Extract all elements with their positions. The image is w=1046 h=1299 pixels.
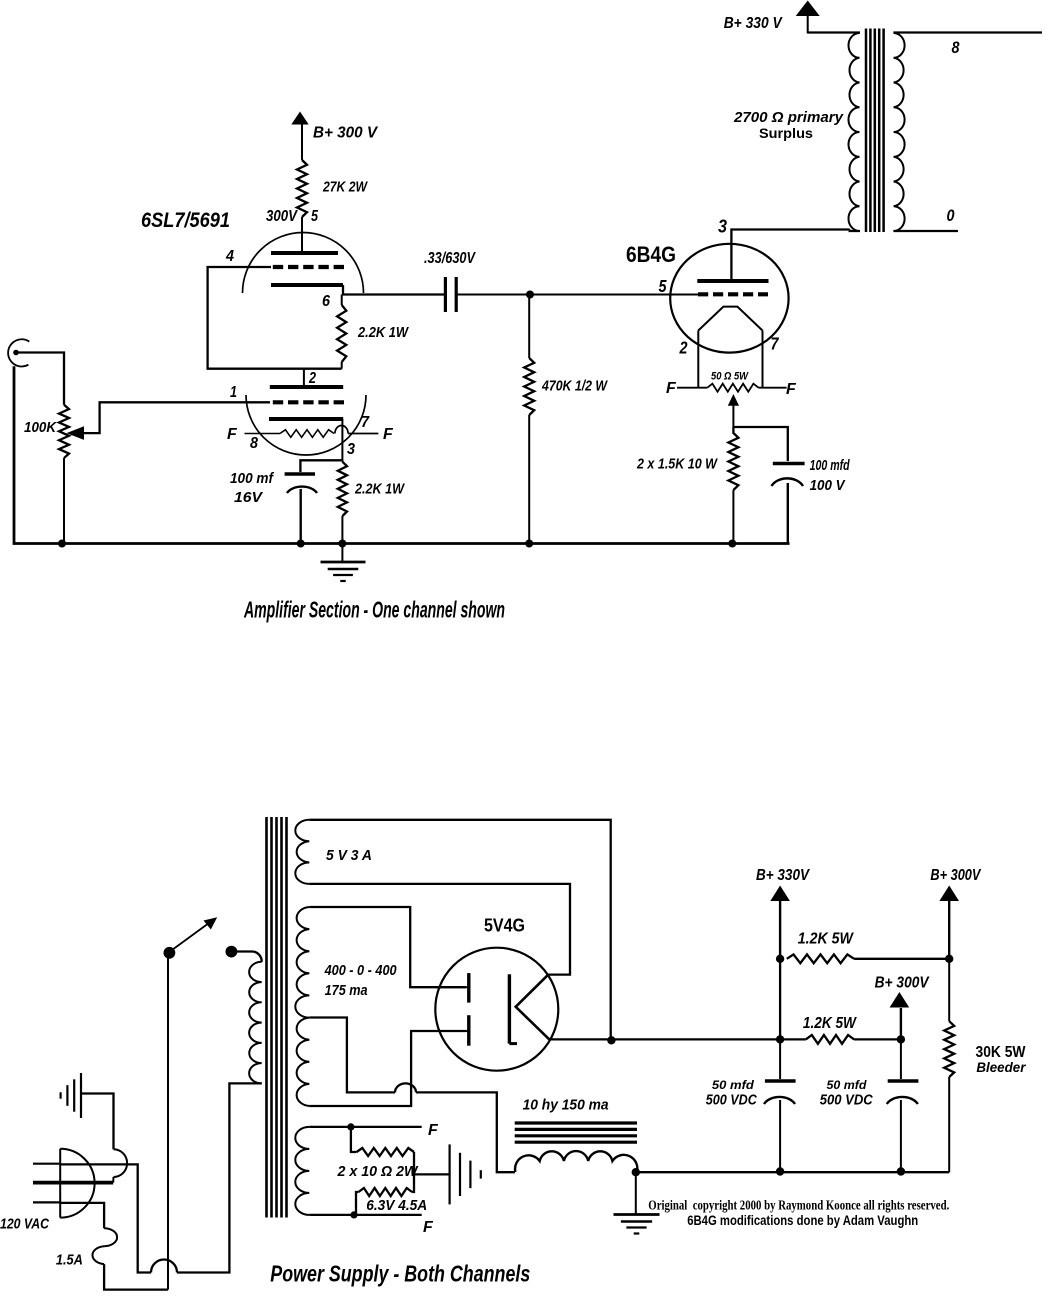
svg-text:F: F (383, 426, 394, 443)
svg-text:Amplifier Section - One channe: Amplifier Section - One channel shown (243, 597, 505, 623)
pot wiper arrow (67, 426, 85, 440)
svg-text:500 VDC: 500 VDC (820, 1093, 873, 1109)
heater wire hop over cathode lead (335, 425, 348, 433)
rectifier V3 5V4G envelope (435, 948, 558, 1071)
hop over switch wire (151, 1260, 177, 1273)
svg-text:4: 4 (225, 248, 234, 265)
plug prong top (33, 1163, 60, 1165)
B+ 300V right output arrow (948, 901, 950, 959)
junction dot bleeder top (945, 955, 953, 963)
svg-text:6.3V 4.5A: 6.3V 4.5A (366, 1197, 427, 1214)
chassis ground symbol right (449, 1144, 451, 1204)
resistor 2.2K 1W (V1a cathode) (341, 295, 343, 306)
svg-text:470K 1/2 W: 470K 1/2 W (541, 378, 608, 395)
wire 6.3V top to F (309, 1126, 421, 1128)
junction dot cap2 bottom (897, 1167, 905, 1175)
svg-text:Bleeder: Bleeder (976, 1059, 1026, 1075)
ground wire and symbol power supply (635, 1172, 637, 1214)
tube V1a 6SL7 triode 1 envelope arc (243, 233, 364, 294)
humdinger resistor 2x10 ohm upper (351, 1127, 357, 1152)
hot wire down and along bottom (60, 1164, 151, 1272)
svg-text:5V4G: 5V4G (484, 916, 525, 936)
input jack J1 (8, 339, 29, 366)
capacitor 100mf 16V plate (285, 472, 315, 476)
svg-text:2: 2 (679, 338, 688, 358)
V2 plate bar (697, 279, 768, 283)
wire cap to grid node of 6B4G (456, 294, 700, 296)
transformer T2 primary winding (249, 962, 262, 1084)
svg-text:10 hy 150 ma: 10 hy 150 ma (523, 1098, 609, 1114)
svg-text:1: 1 (230, 384, 237, 401)
svg-text:6B4G: 6B4G (626, 242, 676, 267)
wire to primary bottom return (177, 1083, 262, 1272)
coupling capacitor .33/630V plates (444, 277, 447, 312)
junction dot B+330 node (776, 955, 784, 963)
filament legs pins 2 and 7 (697, 331, 699, 388)
svg-text:8: 8 (250, 435, 258, 452)
capacitor 100mfd 100V plate (773, 462, 805, 466)
svg-text:100 mf: 100 mf (230, 470, 275, 487)
chassis ground symbol left (80, 1073, 82, 1118)
svg-text:8: 8 (952, 38, 960, 57)
wire HV top to rectifier plate 1 (309, 907, 466, 987)
resistor 1.2K 5W upper (787, 954, 854, 963)
plug prong middle (ground) (33, 1181, 113, 1185)
svg-text:1.2K 5W: 1.2K 5W (798, 930, 854, 947)
svg-text:F: F (423, 1219, 434, 1236)
svg-text:175 ma: 175 ma (325, 982, 368, 999)
wire secondary top tap 8 (893, 31, 1042, 33)
B+ 300V supply arrow (291, 112, 308, 125)
wire jack sleeve down to ground bus (14, 366, 790, 543)
T2 6.3V 4.5A heater winding (295, 1127, 309, 1215)
svg-text:B+ 330 V: B+ 330 V (724, 15, 783, 32)
svg-text:6B4G modifications done by Ada: 6B4G modifications done by Adam Vaughn (687, 1212, 918, 1228)
svg-text:50 mfd: 50 mfd (827, 1078, 868, 1092)
svg-text:400 - 0 - 400: 400 - 0 - 400 (324, 962, 397, 979)
wire switch to primary top (237, 952, 262, 962)
svg-text:2.2K 1W: 2.2K 1W (354, 481, 405, 498)
heater F-F zigzag inside V1b (245, 433, 281, 435)
output transformer T1 primary winding (849, 33, 860, 231)
V1a cathode bar (271, 283, 343, 287)
svg-text:5: 5 (659, 276, 667, 296)
wire cathode node to bypass cap (300, 460, 342, 472)
ground symbol amplifier (341, 544, 343, 562)
bleeder resistor 30K 5W (948, 959, 950, 1021)
HV center tap wire (309, 1018, 395, 1093)
resistor 470K 1/2W grid leak (528, 295, 530, 359)
choke 10hy 150ma core bars (515, 1121, 637, 1124)
svg-text:F: F (428, 1122, 439, 1139)
svg-text:F: F (786, 381, 797, 398)
wire 5V bottom to 5V4G filament (309, 884, 570, 975)
AC plug body (59, 1149, 61, 1218)
V3 plate 1 bar (467, 973, 470, 1003)
negative bus wire to caps (636, 1171, 949, 1173)
V3 filament V arms (516, 975, 550, 1040)
V1b cathode bar (269, 417, 343, 421)
center tap hop over plate wire (395, 1083, 416, 1092)
B+ 330V arrow (796, 1, 820, 17)
V3 filament bar (508, 974, 511, 1043)
switch pole dot (164, 947, 176, 959)
V1b grid dashed bar pin 1 (273, 400, 344, 404)
svg-text:B+ 330V: B+ 330V (756, 867, 810, 884)
V2 filament tent (698, 307, 762, 331)
resistor 27K 2W (plate load) (297, 160, 307, 217)
capacitor 100mf 16V curved plate (287, 487, 317, 493)
svg-text:1.5A: 1.5A (56, 1252, 83, 1269)
wire jack to 100K pot top (17, 353, 64, 405)
svg-text:100 mfd: 100 mfd (810, 457, 851, 474)
V3 plate 1 lead (435, 986, 469, 988)
plug prong bottom (33, 1201, 60, 1203)
junction dot choke to ground bus (632, 1168, 640, 1176)
wire plate pin 3 to output transformer (731, 230, 849, 280)
svg-text:5 V 3 A: 5 V 3 A (326, 847, 372, 864)
svg-text:.33/630V: .33/630V (424, 250, 476, 267)
rectifier output wire to filter (549, 1038, 780, 1040)
resistor 2 x 1.5K 10W cathode bias (728, 427, 738, 490)
svg-text:2 x 10 Ω 2W: 2 x 10 Ω 2W (337, 1163, 420, 1180)
wire HV bottom to rectifier plate 2 (309, 1031, 466, 1106)
junction dot pot-ground (58, 540, 66, 548)
junction dot rectifier output (607, 1036, 615, 1044)
svg-text:1.2K 5W: 1.2K 5W (803, 1015, 857, 1032)
junction node grid of 6B4G (526, 291, 534, 299)
wire 5V top to B+ node (309, 820, 610, 1041)
T2 HV winding 400-0-400 (295, 907, 309, 1106)
svg-text:7: 7 (771, 334, 780, 354)
svg-text:27K 2W: 27K 2W (322, 179, 368, 196)
junction dot bias resistor at bus (728, 540, 736, 548)
T1 core laminations (865, 29, 868, 233)
svg-text:100 V: 100 V (810, 477, 847, 494)
tube V2 6B4G envelope (670, 244, 788, 353)
T2 5V 3A rectifier filament winding (295, 820, 309, 884)
filter capacitor C4 50mfd 500VDC (900, 1039, 902, 1079)
svg-text:B+ 300 V: B+ 300 V (313, 125, 379, 142)
svg-text:B+ 300V: B+ 300V (930, 867, 981, 884)
junction dot mid rail cap1 (776, 1035, 784, 1043)
wire resistor to plate pin 5 (301, 217, 303, 252)
svg-text:Surplus: Surplus (759, 126, 813, 141)
wire humdinger to chassis ground (414, 1173, 450, 1175)
potentiometer 100K (59, 405, 69, 458)
B+ 300V mid output arrow (900, 1008, 902, 1039)
junction dot cathode resistor at bus (338, 540, 346, 548)
V1b plate bar (270, 385, 343, 389)
T2 core laminations (265, 817, 268, 1218)
svg-text:3: 3 (347, 441, 355, 458)
humdinger resistor lower (412, 1152, 414, 1192)
svg-text:500 VDC: 500 VDC (706, 1093, 757, 1109)
resistor 2.2K 1W (V1b cathode) (338, 462, 347, 516)
junction dot cap1 bottom (776, 1167, 784, 1175)
svg-text:6: 6 (322, 293, 330, 310)
svg-text:6SL7/5691: 6SL7/5691 (141, 209, 230, 232)
capacitor 100mfd curved plate (772, 478, 804, 486)
T1 secondary winding (894, 33, 905, 231)
svg-text:7: 7 (361, 414, 370, 431)
svg-text:100K: 100K (24, 419, 57, 436)
wire primary bottom to plate wire (850, 230, 860, 232)
V1a plate bar (271, 251, 338, 255)
V1a grid dashed bar pin 4 (273, 265, 344, 269)
svg-text:0: 0 (947, 206, 955, 225)
wire pin 2 plate of V1b to box (303, 369, 305, 386)
B+ 330V output arrow (779, 901, 781, 959)
svg-text:50 mfd: 50 mfd (712, 1078, 755, 1092)
svg-text:2.2K 1W: 2.2K 1W (357, 324, 409, 341)
wire 6.3V bottom to F (309, 1214, 421, 1216)
pin 3 cathode wire down (341, 419, 343, 462)
svg-text:2700 Ω primary: 2700 Ω primary (733, 110, 844, 126)
wire pin6 cathode to coupling cap (343, 285, 445, 295)
B+ feed wire continues to node of cap1 (779, 959, 781, 1040)
wire B+330V to primary top (808, 31, 860, 33)
choke winding (515, 1151, 637, 1172)
chassis ground wire loop around hot wire (114, 1149, 128, 1177)
filter capacitor C3 50mfd 500VDC (779, 1039, 781, 1079)
svg-text:120 VAC: 120 VAC (0, 1216, 50, 1233)
V3 plate 2 lead (435, 1030, 469, 1032)
svg-text:16V: 16V (234, 489, 264, 506)
switch throw dot (226, 946, 238, 958)
svg-text:2: 2 (308, 370, 316, 387)
junction dot B+300 mid node (897, 1035, 905, 1043)
svg-text:300V: 300V (266, 208, 298, 225)
svg-text:F: F (666, 380, 677, 397)
resistor 1.2K 5W lower (780, 1038, 806, 1040)
V3 plate 2 bar (467, 1015, 470, 1045)
junction dot 470K at bus (525, 540, 533, 548)
feedback box wire: grid pin4 left and down to plate pin2 node (208, 267, 342, 369)
junction dot humdinger top (347, 1123, 354, 1130)
hum balance resistor 50 ohm 5W with F leads (677, 387, 707, 389)
switch wire from fuse to switch pole (167, 956, 169, 1290)
hum pot wiper arrow up (728, 394, 739, 406)
tube V1b 6SL7 triode 2 envelope arc (246, 395, 366, 455)
svg-text:B+ 300V: B+ 300V (875, 975, 930, 992)
wire wiper to V1b grid pin 1 (83, 402, 270, 433)
wire wiper node to bypass cap 100mfd (733, 427, 787, 461)
junction dot humdinger bottom (350, 1211, 357, 1218)
svg-text:2 x 1.5K 10 W: 2 x 1.5K 10 W (636, 456, 718, 473)
wire secondary bottom tap 0 (893, 230, 958, 232)
fuse 1.5A neutral path (60, 1203, 104, 1228)
svg-text:F: F (227, 426, 238, 443)
svg-text:50 Ω 5W: 50 Ω 5W (711, 371, 749, 383)
pin 5 grid dashed bar (698, 292, 768, 296)
junction dot bypass cap at bus (297, 540, 305, 548)
wire up to chassis ground symbol (81, 1094, 114, 1150)
svg-text:5: 5 (311, 208, 319, 225)
switch arm with arrow (172, 922, 211, 951)
svg-text:3: 3 (718, 217, 727, 237)
svg-text:Power Supply - Both Channels: Power Supply - Both Channels (270, 1261, 530, 1287)
